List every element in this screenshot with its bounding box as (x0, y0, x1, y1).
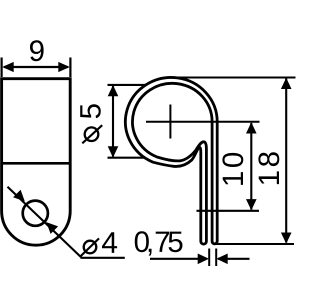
dimension o4 leader line through hole (8, 187, 82, 258)
dimension o4 lower arrowhead (46, 222, 58, 234)
dimension o4 upper arrowhead (13, 190, 25, 202)
dimension 9 left arrowhead (2, 62, 14, 72)
dimension o4 leader shelf (81, 257, 125, 259)
dimension 18 label text (rotated) (258, 152, 279, 184)
clip profile outline (125, 77, 217, 244)
dimension o5 bottom arrowhead (108, 146, 119, 157)
dimension 0,75 right arrow line (218, 258, 250, 260)
dimension 0,75 left arrowhead (198, 254, 209, 265)
dimension 10 label text (rotated) (222, 153, 243, 185)
clamp body outline (2, 79, 71, 246)
centerline horizontal (also top extension of dim 10) (146, 121, 260, 123)
dimension 10 bottom arrowhead (246, 199, 257, 210)
dimension o5 dimension line (112, 86, 114, 157)
dimension o4 digit 4 (102, 232, 117, 253)
dimension o5 diameter symbol slash (82, 125, 102, 143)
dimension 0,75 left extension line (208, 249, 210, 267)
dimension o4 diameter symbol circle (84, 241, 97, 254)
dimension o5 digit 5 (rotated) (80, 104, 101, 118)
dimension 18 dimension line (285, 79, 287, 243)
dimension 0,75 right extension line (215, 249, 217, 267)
dimension o5 diameter symbol circle (85, 127, 99, 141)
dimension 18 top extension line (171, 76, 296, 78)
dimension 0,75 right arrowhead (216, 254, 227, 265)
dimension 0,75 left arrow line (150, 258, 206, 260)
dimension 10 top arrowhead (246, 122, 257, 133)
dimension 9 dimension line (4, 66, 68, 68)
dimension 10 bottom extension line (197, 210, 260, 212)
dimension o5 top arrowhead (108, 85, 119, 96)
dimension 9 label text (30, 40, 44, 61)
dimension o4 diameter symbol slash (81, 238, 99, 256)
dimension 18 top arrowhead (281, 78, 292, 89)
dimension 0,75 label text (135, 231, 183, 255)
clamp body divider line (2, 162, 71, 165)
dimension 9 right arrowhead (58, 62, 70, 72)
mounting hole circle (23, 201, 48, 226)
dimension o5 top extension line (108, 84, 147, 86)
dimension o5 bottom extension line (108, 157, 145, 159)
dimension 18 bottom arrowhead (281, 233, 292, 244)
centerline vertical (169, 105, 171, 139)
dimension 10 dimension line (250, 123, 252, 210)
dimension 9 extension lines (2, 58, 71, 78)
dimension 18 bottom extension line (215, 243, 294, 245)
